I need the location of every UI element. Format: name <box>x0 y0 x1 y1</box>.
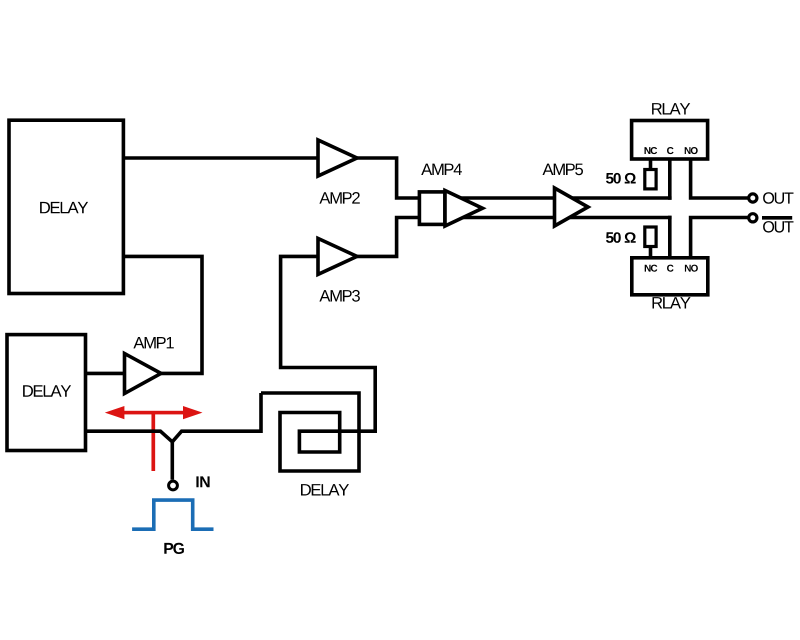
red tap vertical marker <box>151 411 155 471</box>
relay top contact label C <box>667 147 674 154</box>
bottom relay C pin <box>668 216 672 258</box>
label DELAY3 <box>301 484 349 495</box>
wire AMP3 to AMP4 <box>357 218 421 257</box>
label 50 ohm top <box>606 173 636 184</box>
label AMP4 <box>421 164 462 175</box>
label PG <box>164 543 184 554</box>
label OUT <box>763 192 793 204</box>
OUT terminal circle <box>749 194 757 202</box>
relay bottom contact label C <box>667 265 674 272</box>
wire AMP1 output to DELAY1 <box>123 256 202 373</box>
blue pulse waveform of pulse generator PG <box>132 500 213 529</box>
amplifier AMP1 <box>125 354 162 394</box>
relay bottom contact label NC <box>645 265 658 272</box>
top relay C pin <box>668 159 672 200</box>
bottom relay NC pin stub <box>649 247 653 259</box>
relay top contact label NC <box>645 147 658 154</box>
label RLAY bottom <box>653 297 691 308</box>
label AMP1 <box>133 337 173 348</box>
output line L2 AMP4 to bottom relay C <box>446 216 672 220</box>
relay top contact label NO <box>685 147 698 154</box>
bottom relay NO pin to OUT-bar <box>691 218 748 258</box>
amplifier AMP4 triangle <box>445 191 483 227</box>
delay line spiral DELAY3 <box>261 256 375 471</box>
label DELAY2 <box>23 385 71 396</box>
delay box DELAY1 <box>9 120 123 293</box>
relay bottom contact label NO <box>685 265 698 272</box>
amplifier AMP3 <box>318 238 357 274</box>
relay box RLAY bottom <box>632 258 708 295</box>
wire DELAY1 to AMP2 <box>123 156 319 160</box>
delay box DELAY2 <box>7 335 86 451</box>
wire DELAY2 with IN tap notch to delay line <box>86 393 262 442</box>
label RLAY top <box>652 103 690 114</box>
amplifier AMP2 <box>318 140 357 176</box>
top relay NO pin to OUT <box>691 159 748 198</box>
red tap position arrow <box>105 406 203 419</box>
label OUT-bar <box>763 221 793 233</box>
amplifier AMP4 box <box>419 192 445 225</box>
wire DELAY2 to AMP1 <box>86 372 126 376</box>
wire IN tap drop <box>171 442 175 480</box>
OUT-bar overline <box>762 216 792 220</box>
terminating resistor 50 ohm top <box>645 170 656 189</box>
OUT-bar terminal circle <box>749 214 757 222</box>
label DELAY1 <box>40 202 88 213</box>
amplifier AMP5 <box>555 188 589 226</box>
label AMP3 <box>319 290 360 302</box>
label AMP5 <box>543 164 584 176</box>
output line L1 AMP4 to top relay C <box>446 196 672 200</box>
wire AMP2 to AMP4 <box>357 158 421 198</box>
label IN <box>196 476 209 487</box>
IN terminal circle <box>169 481 178 490</box>
terminating resistor 50 ohm bottom <box>645 227 656 247</box>
top relay NC pin stub <box>649 159 653 169</box>
label 50 ohm bottom <box>606 232 636 243</box>
relay box RLAY top <box>632 121 708 160</box>
label AMP2 <box>319 192 359 204</box>
